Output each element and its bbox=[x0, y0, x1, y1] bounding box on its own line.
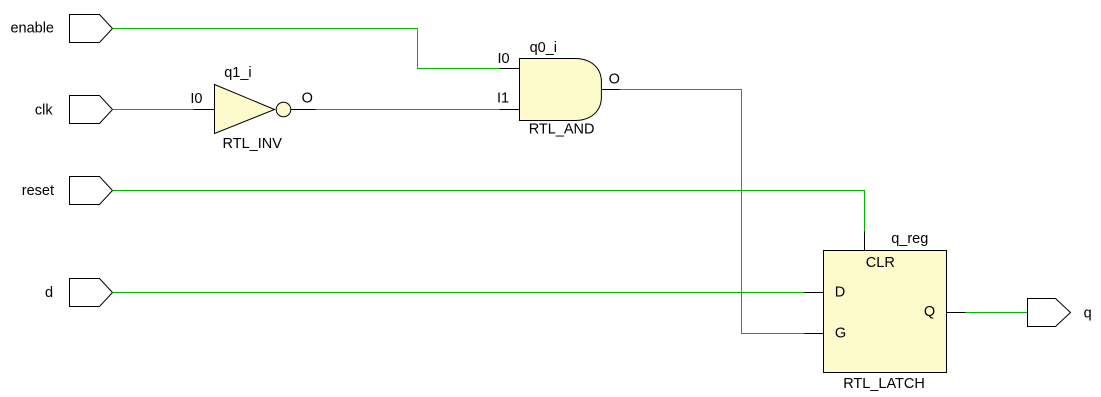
port enable bbox=[70, 15, 113, 43]
svg-text:G: G bbox=[835, 326, 846, 342]
wire reset net bbox=[113, 191, 865, 232]
svg-text:Q: Q bbox=[924, 304, 935, 320]
inverter U q1_i bbox=[215, 85, 275, 134]
svg-text:q: q bbox=[1084, 306, 1092, 322]
wire INV I0 pin stub bbox=[194, 109, 215, 111]
wire AND I1 pin stub bbox=[500, 109, 520, 111]
wire latch D pin stub bbox=[805, 292, 824, 294]
svg-text:D: D bbox=[835, 285, 845, 301]
wire and-to-latch net bbox=[620, 90, 805, 334]
and-gate U q0_i bbox=[520, 59, 602, 121]
inverter bubble bbox=[276, 102, 291, 117]
svg-text:enable: enable bbox=[10, 21, 54, 37]
svg-text:I0: I0 bbox=[190, 91, 202, 107]
port reset bbox=[70, 177, 113, 205]
port d bbox=[70, 279, 113, 307]
wire inv-to-and net bbox=[316, 109, 500, 111]
wire q net bbox=[966, 312, 1028, 314]
svg-text:CLR: CLR bbox=[866, 255, 895, 271]
svg-text:RTL_LATCH: RTL_LATCH bbox=[843, 376, 925, 392]
svg-text:RTL_AND: RTL_AND bbox=[529, 122, 595, 138]
svg-text:reset: reset bbox=[22, 183, 54, 199]
svg-text:O: O bbox=[302, 91, 313, 107]
wire AND O pin stub bbox=[602, 89, 620, 91]
svg-text:clk: clk bbox=[35, 102, 53, 118]
wire INV O pin stub bbox=[291, 109, 316, 111]
port clk bbox=[70, 96, 113, 124]
wire latch CLR pin stub bbox=[864, 232, 866, 251]
svg-text:I1: I1 bbox=[497, 91, 509, 107]
wire enable net bbox=[113, 29, 500, 69]
wire latch G pin stub bbox=[805, 333, 824, 335]
wire clk net bbox=[113, 109, 194, 111]
svg-text:q_reg: q_reg bbox=[891, 231, 928, 247]
svg-text:I0: I0 bbox=[498, 51, 510, 67]
wire d net bbox=[113, 292, 805, 294]
latch U q_reg bbox=[824, 251, 947, 373]
svg-text:RTL_INV: RTL_INV bbox=[223, 136, 283, 152]
wire latch Q pin stub bbox=[947, 312, 966, 314]
port q bbox=[1028, 299, 1071, 327]
svg-text:q0_i: q0_i bbox=[530, 40, 557, 56]
wire AND I0 pin stub bbox=[500, 68, 520, 70]
svg-text:O: O bbox=[609, 71, 620, 87]
svg-text:q1_i: q1_i bbox=[224, 65, 251, 81]
svg-text:d: d bbox=[45, 285, 53, 301]
